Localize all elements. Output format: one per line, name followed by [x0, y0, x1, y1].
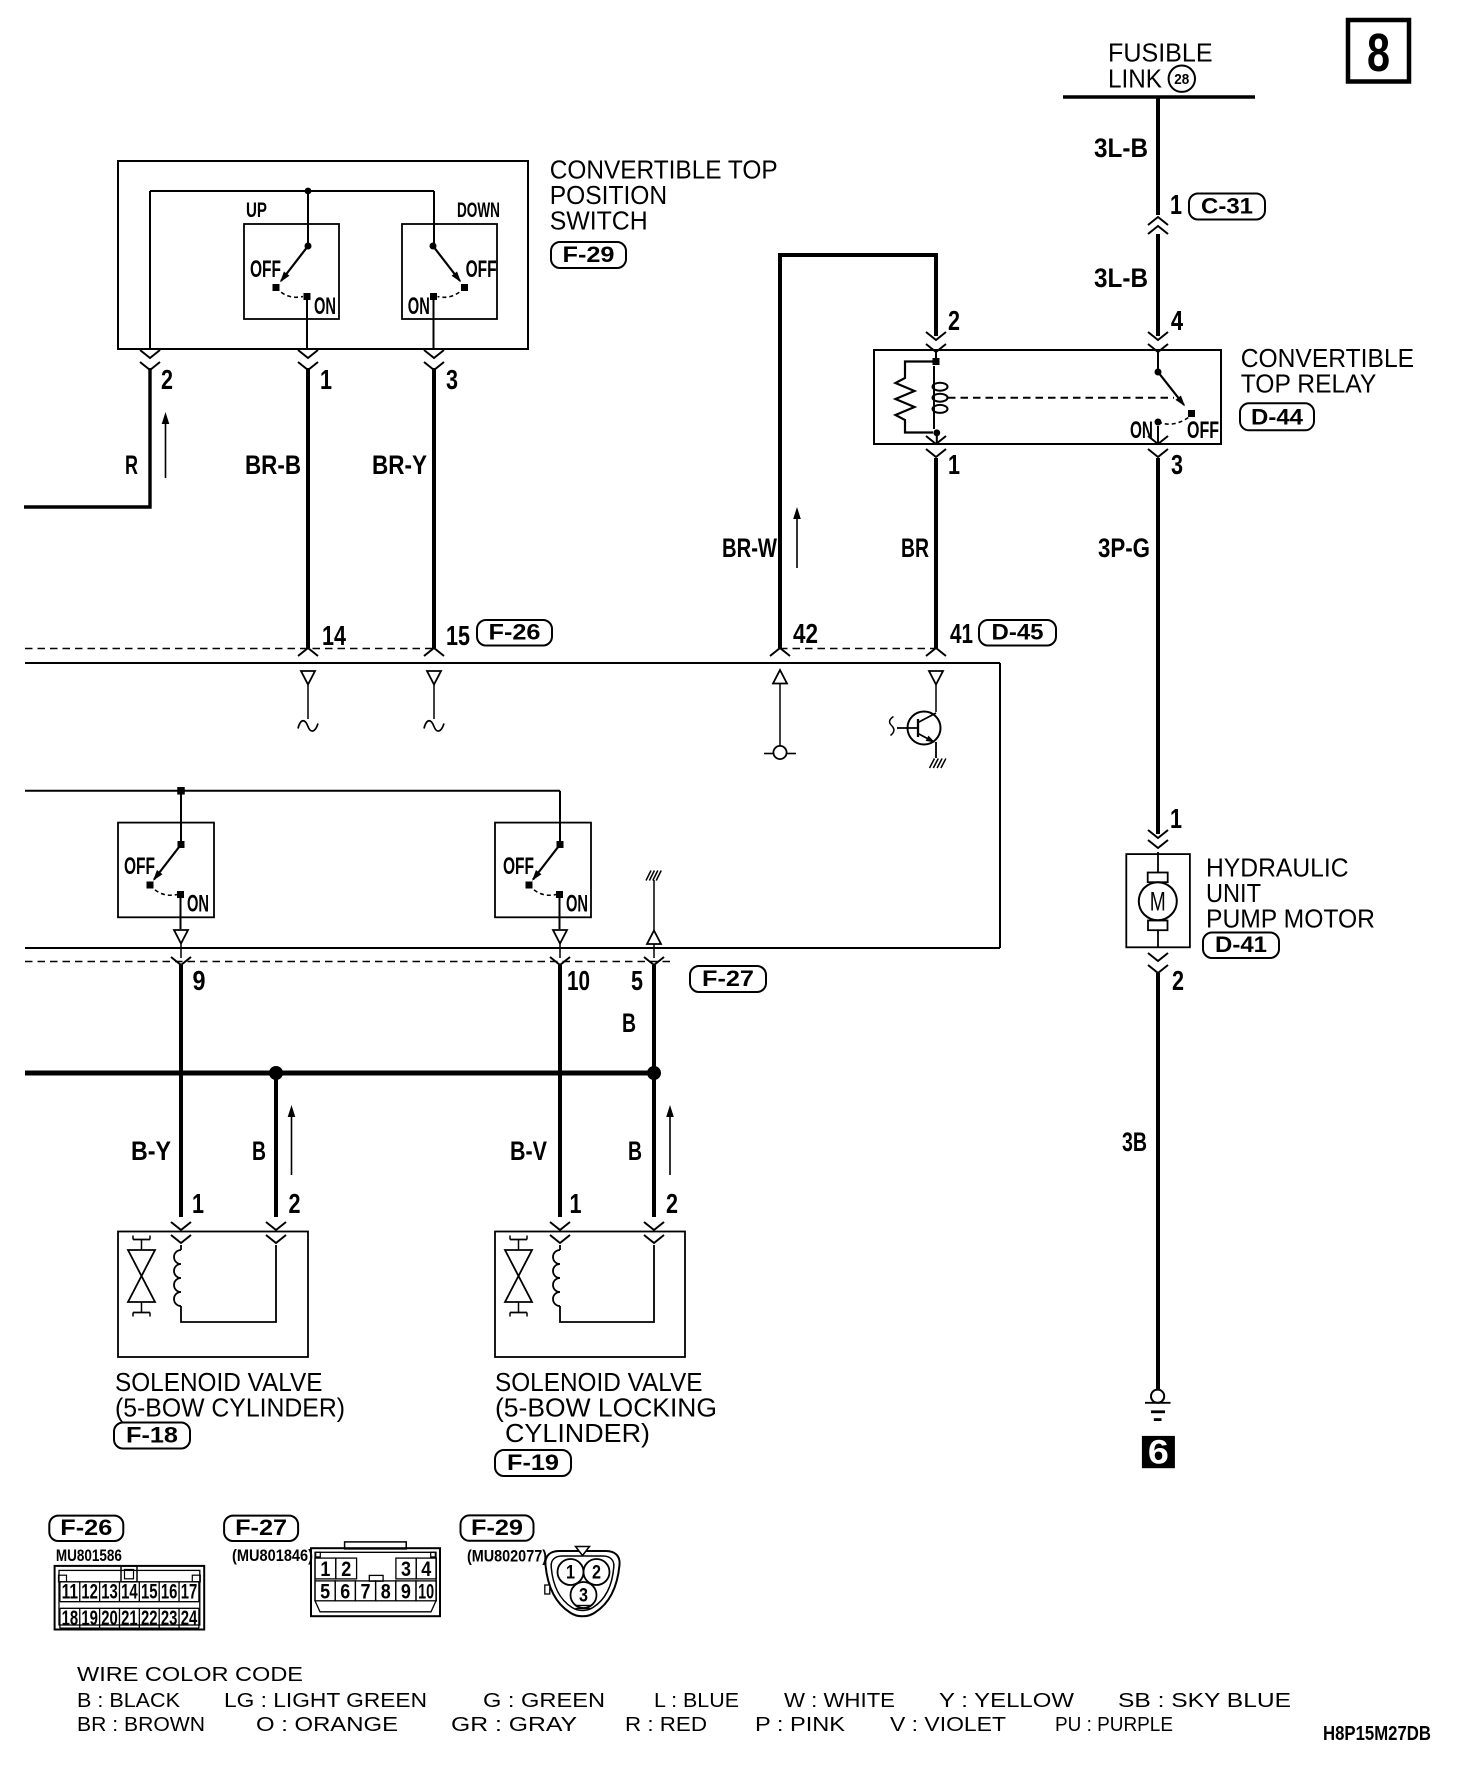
svg-text:BR: BR [901, 533, 929, 563]
svg-text:UP: UP [246, 199, 267, 222]
svg-text:D-44: D-44 [1251, 404, 1304, 429]
svg-text:2: 2 [341, 1558, 351, 1581]
svg-text:OFF: OFF [124, 853, 155, 880]
svg-text:F-18: F-18 [126, 1423, 178, 1448]
svg-text:22: 22 [141, 1607, 158, 1630]
svg-text:LG : LIGHT GREEN: LG : LIGHT GREEN [224, 1690, 427, 1712]
svg-text:1: 1 [192, 1188, 204, 1219]
svg-text:1: 1 [948, 449, 960, 480]
svg-text:B : BLACK: B : BLACK [77, 1690, 181, 1712]
svg-text:BR-W: BR-W [722, 533, 777, 563]
svg-text:9: 9 [193, 965, 206, 996]
svg-text:G : GREEN: G : GREEN [483, 1690, 605, 1712]
svg-text:PUMP MOTOR: PUMP MOTOR [1206, 903, 1375, 933]
svg-text:B-Y: B-Y [131, 1136, 171, 1166]
svg-text:10: 10 [418, 1581, 434, 1604]
svg-text:2: 2 [289, 1188, 301, 1219]
svg-text:18: 18 [62, 1607, 79, 1630]
svg-text:2: 2 [948, 305, 960, 336]
svg-text:R: R [125, 450, 138, 480]
svg-text:F-27: F-27 [235, 1515, 287, 1540]
svg-text:2: 2 [666, 1188, 678, 1219]
svg-text:1: 1 [1170, 189, 1182, 220]
svg-text:F-27: F-27 [702, 966, 754, 991]
svg-text:O : ORANGE: O : ORANGE [256, 1714, 398, 1736]
svg-text:14: 14 [322, 620, 346, 651]
svg-text:OFF: OFF [466, 256, 497, 283]
svg-text:ON: ON [187, 891, 209, 918]
svg-text:B: B [252, 1136, 266, 1166]
svg-text:17: 17 [181, 1581, 198, 1604]
svg-text:TOP RELAY: TOP RELAY [1241, 369, 1377, 399]
svg-text:C-31: C-31 [1201, 194, 1253, 219]
svg-text:14: 14 [121, 1581, 138, 1604]
svg-text:ON: ON [408, 293, 430, 320]
svg-text:20: 20 [101, 1607, 118, 1630]
svg-text:21: 21 [121, 1607, 138, 1630]
svg-text:H8P15M27DB: H8P15M27DB [1323, 1723, 1431, 1745]
svg-text:BR-Y: BR-Y [372, 450, 427, 480]
svg-text:Y : YELLOW: Y : YELLOW [939, 1690, 1074, 1712]
svg-text:19: 19 [81, 1607, 98, 1630]
svg-text:6: 6 [1148, 1434, 1169, 1472]
svg-text:3: 3 [579, 1586, 588, 1607]
svg-text:OFF: OFF [250, 256, 281, 283]
svg-text:5: 5 [631, 965, 643, 996]
svg-text:ON: ON [1130, 417, 1153, 444]
svg-text:15: 15 [141, 1581, 158, 1604]
svg-text:2: 2 [161, 364, 173, 395]
svg-text:PU : PURPLE: PU : PURPLE [1055, 1714, 1173, 1736]
svg-text:BR-B: BR-B [245, 450, 301, 480]
svg-text:DOWN: DOWN [457, 199, 500, 222]
svg-text:1: 1 [320, 364, 332, 395]
svg-text:OFF: OFF [1187, 417, 1219, 444]
svg-text:42: 42 [793, 618, 818, 649]
svg-text:BR : BROWN: BR : BROWN [77, 1714, 205, 1736]
svg-text:12: 12 [81, 1581, 98, 1604]
svg-text:(5-BOW CYLINDER): (5-BOW CYLINDER) [115, 1393, 345, 1423]
svg-text:3P-G: 3P-G [1098, 533, 1150, 563]
svg-text:24: 24 [181, 1607, 198, 1630]
svg-text:1: 1 [320, 1558, 330, 1581]
svg-text:LINK: LINK [1108, 63, 1163, 93]
svg-text:F-19: F-19 [507, 1450, 559, 1475]
svg-text:3: 3 [401, 1558, 411, 1581]
svg-text:28: 28 [1174, 71, 1189, 88]
svg-text:3: 3 [446, 364, 458, 395]
svg-text:P : PINK: P : PINK [755, 1714, 846, 1736]
svg-text:F-26: F-26 [60, 1515, 112, 1540]
svg-text:OFF: OFF [503, 853, 534, 880]
svg-text:8: 8 [381, 1581, 391, 1604]
svg-text:3L-B: 3L-B [1094, 133, 1148, 163]
svg-text:16: 16 [161, 1581, 178, 1604]
svg-text:D-45: D-45 [992, 620, 1044, 645]
svg-text:CYLINDER): CYLINDER) [505, 1418, 650, 1448]
svg-text:(MU802077): (MU802077) [467, 1547, 547, 1566]
svg-text:10: 10 [567, 965, 590, 996]
svg-text:(MU801846): (MU801846) [232, 1546, 313, 1565]
svg-text:2: 2 [592, 1563, 601, 1584]
svg-text:9: 9 [401, 1581, 411, 1604]
svg-text:6: 6 [340, 1581, 350, 1604]
svg-text:W : WHITE: W : WHITE [784, 1690, 895, 1712]
svg-text:L : BLUE: L : BLUE [654, 1690, 739, 1712]
svg-text:1: 1 [1170, 803, 1182, 834]
svg-text:41: 41 [950, 618, 973, 649]
svg-text:1: 1 [570, 1188, 582, 1219]
svg-text:ON: ON [314, 293, 336, 320]
svg-text:B: B [622, 1008, 636, 1038]
svg-text:B: B [628, 1136, 642, 1166]
svg-text:D-41: D-41 [1215, 932, 1267, 957]
svg-text:7: 7 [361, 1581, 371, 1604]
svg-text:3L-B: 3L-B [1094, 263, 1148, 293]
svg-text:R : RED: R : RED [625, 1714, 707, 1736]
svg-text:MU801586: MU801586 [56, 1546, 122, 1565]
svg-text:5: 5 [320, 1581, 330, 1604]
svg-text:3: 3 [1171, 449, 1183, 480]
svg-text:2: 2 [1172, 965, 1184, 996]
svg-text:11: 11 [62, 1581, 79, 1604]
svg-text:GR : GRAY: GR : GRAY [451, 1714, 577, 1736]
svg-text:B-V: B-V [510, 1136, 547, 1166]
svg-text:F-29: F-29 [563, 242, 615, 267]
svg-text:4: 4 [1171, 305, 1183, 336]
svg-text:15: 15 [446, 620, 470, 651]
svg-text:ON: ON [566, 891, 588, 918]
svg-text:13: 13 [101, 1581, 118, 1604]
svg-text:4: 4 [421, 1558, 431, 1581]
svg-text:M: M [1150, 887, 1166, 917]
svg-text:V : VIOLET: V : VIOLET [890, 1714, 1006, 1736]
svg-text:WIRE COLOR CODE: WIRE COLOR CODE [77, 1664, 303, 1686]
svg-text:1: 1 [566, 1563, 575, 1584]
svg-text:SWITCH: SWITCH [550, 206, 648, 236]
svg-text:SB : SKY BLUE: SB : SKY BLUE [1118, 1690, 1291, 1712]
svg-text:3B: 3B [1122, 1127, 1147, 1157]
svg-text:23: 23 [161, 1607, 178, 1630]
svg-text:F-29: F-29 [471, 1515, 523, 1540]
svg-text:8: 8 [1367, 23, 1390, 83]
svg-text:F-26: F-26 [489, 620, 541, 645]
